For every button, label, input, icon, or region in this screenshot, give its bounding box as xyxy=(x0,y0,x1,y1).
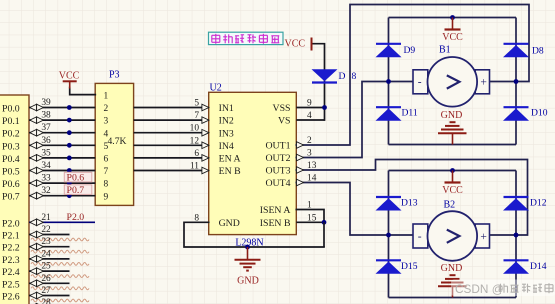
wire P2.4 stub xyxy=(29,270,70,272)
wire B1 right node to motor + xyxy=(490,81,517,83)
svg-text:D15: D15 xyxy=(401,261,418,272)
IO arrow P0.3 xyxy=(30,142,37,149)
input arrow U2 pin6 xyxy=(202,155,209,162)
svg-text:23: 23 xyxy=(41,237,51,247)
svg-text:1: 1 xyxy=(104,92,109,102)
svg-text:36: 36 xyxy=(41,136,51,146)
svg-text:2: 2 xyxy=(307,136,312,146)
no-ERC squiggle under P2.1 xyxy=(31,238,89,241)
diode D13 xyxy=(376,196,401,198)
B1 left rail wire xyxy=(388,18,390,145)
input arrow U2 pin7 xyxy=(202,117,209,124)
svg-text:P2.5: P2.5 xyxy=(2,279,20,290)
IO arrow P2.0 xyxy=(30,219,37,226)
svg-text:P0.6: P0.6 xyxy=(67,173,85,184)
IO arrow P0.2 xyxy=(30,129,37,136)
wire P3 pin2 to U2 IN1 xyxy=(134,107,209,109)
svg-text:7: 7 xyxy=(104,167,109,177)
input arrow U2 pin11 xyxy=(202,167,209,174)
wire B2 left node to motor - xyxy=(389,234,414,236)
junction dot B2 right node xyxy=(514,233,519,238)
svg-text:GND: GND xyxy=(237,275,259,286)
svg-text:OUT3: OUT3 xyxy=(265,166,290,177)
driver U2 (L298N) body xyxy=(209,92,297,234)
IO arrow P2.1 xyxy=(30,231,37,238)
VCC port (B2 rail) xyxy=(450,168,455,173)
svg-text:VCC: VCC xyxy=(285,39,306,50)
svg-text:15: 15 xyxy=(307,213,317,223)
svg-text:D14: D14 xyxy=(530,261,547,272)
output arrow U2 OUT3 xyxy=(297,167,304,174)
svg-text:D13: D13 xyxy=(401,198,418,209)
net label P0.6 xyxy=(64,172,92,182)
svg-text:D10: D10 xyxy=(531,108,548,119)
net label P0.7 xyxy=(64,185,92,195)
B2 left rail wire xyxy=(388,171,390,298)
svg-text:39: 39 xyxy=(41,98,51,108)
svg-text:9: 9 xyxy=(307,99,312,109)
IO arrow P0.6 xyxy=(30,180,37,187)
wire U2 ISEN A pin1 xyxy=(296,210,324,223)
wire U2 VSS pin9 xyxy=(296,107,324,109)
MCU U? (left, clipped) body xyxy=(0,95,29,304)
output arrow U2 OUT4 xyxy=(297,179,304,186)
svg-text:22: 22 xyxy=(41,225,51,235)
svg-text:P2.4: P2.4 xyxy=(2,267,20,278)
B2 right rail wire xyxy=(515,171,517,298)
wire P3 pin7 to U2 EN B xyxy=(134,170,209,172)
wire P2.6 stub xyxy=(29,295,70,297)
svg-text:4: 4 xyxy=(307,111,312,121)
title box 电机驱动电路 (motor drive circuit) xyxy=(209,32,284,44)
svg-text:9: 9 xyxy=(104,192,109,202)
motor B2 xyxy=(413,224,428,248)
B1 bridge frame top VCC rail xyxy=(389,17,517,19)
diode D14 xyxy=(504,259,529,261)
svg-text:ISEN A: ISEN A xyxy=(260,205,291,216)
IO arrow P2.5 xyxy=(30,280,37,287)
svg-text:P0.2: P0.2 xyxy=(2,129,20,140)
svg-text:P0.3: P0.3 xyxy=(2,141,20,152)
wire U2 VS pin4 xyxy=(296,119,324,121)
svg-text:2: 2 xyxy=(104,104,109,114)
B2 bottom GND rail xyxy=(389,297,517,299)
wire U2 ISEN B pin15 xyxy=(296,221,324,223)
svg-text:GND: GND xyxy=(219,218,240,229)
svg-text:33: 33 xyxy=(41,174,51,184)
wire P0.7 to P3 pin9 xyxy=(29,195,95,197)
VCC port (B1 rail) xyxy=(450,15,455,20)
IO arrow P2.6 xyxy=(30,292,37,299)
wire U2 OUT1 pin2 route to B1 + terminal xyxy=(296,5,529,146)
wire P0.1 to P3 pin3 xyxy=(29,119,95,121)
junction dot P0.1 wire xyxy=(67,118,72,123)
wire U2 OUT4 pin14 route to B2 - terminal xyxy=(296,183,388,236)
diode D8 xyxy=(504,43,529,45)
svg-text:GND: GND xyxy=(441,263,463,274)
svg-text:+: + xyxy=(480,231,487,243)
svg-text:38: 38 xyxy=(41,111,51,121)
junction dot P0.4 wire xyxy=(67,156,72,161)
wire B1 left node to motor - xyxy=(389,81,414,83)
svg-text:GND: GND xyxy=(441,110,463,121)
wire D18 branch VCC to VSS/VS xyxy=(312,44,325,120)
svg-text:27: 27 xyxy=(41,286,51,296)
svg-text:1: 1 xyxy=(307,201,312,211)
svg-text:4.7K: 4.7K xyxy=(108,136,127,147)
svg-text:8: 8 xyxy=(194,213,199,223)
wire P3 pin6 to U2 EN A xyxy=(134,157,209,159)
svg-text:12: 12 xyxy=(190,136,200,146)
IO arrow P0.1 xyxy=(30,117,37,124)
wire P3 pin4 to U2 IN3 xyxy=(134,132,209,134)
IO arrow P0.4 xyxy=(30,155,37,162)
wire P0.6 to P3 pin8 xyxy=(29,182,95,184)
IO arrow P2.4 xyxy=(30,268,37,275)
diode D18 (flyback near VSS) xyxy=(312,69,338,81)
svg-text:VCC: VCC xyxy=(442,32,463,43)
junction dot B1 left node xyxy=(386,79,391,84)
wire B2 right node to motor + xyxy=(490,234,517,236)
input arrow U2 pin12 xyxy=(202,142,209,149)
wire P3 pin5 to U2 IN4 xyxy=(134,144,209,146)
svg-text:B1: B1 xyxy=(439,45,451,56)
wire P3 pin3 to U2 IN2 xyxy=(134,119,209,121)
svg-text:OUT2: OUT2 xyxy=(265,153,290,164)
svg-text:25: 25 xyxy=(41,262,51,272)
svg-text:-: - xyxy=(418,231,422,243)
wire P0.2 to P3 pin4 xyxy=(29,132,95,134)
svg-text:L298N: L298N xyxy=(235,237,263,248)
svg-text:EN B: EN B xyxy=(219,166,242,177)
svg-text:35: 35 xyxy=(41,148,51,158)
ground (U2 GND rail) xyxy=(247,247,249,260)
no-ERC squiggle under P2.3 xyxy=(31,263,89,266)
svg-text:26: 26 xyxy=(41,274,51,284)
resistor-network connector P3 body xyxy=(95,83,133,205)
svg-text:VCC: VCC xyxy=(442,185,463,196)
svg-text:8: 8 xyxy=(104,180,109,190)
svg-text:VSS: VSS xyxy=(273,103,291,114)
junction dot ground rail xyxy=(245,245,250,250)
no-ERC squiggle under P2.4 xyxy=(31,275,89,278)
junction dot P0.6 wire xyxy=(67,181,72,186)
svg-text:+: + xyxy=(480,77,487,89)
input arrow U2 pin5 xyxy=(202,104,209,111)
wire P0.5 to P3 pin7 xyxy=(29,170,95,172)
svg-text:32: 32 xyxy=(41,186,51,196)
wire P2.2 stub xyxy=(29,246,70,248)
svg-text:D11: D11 xyxy=(402,108,418,119)
svg-text:IN3: IN3 xyxy=(219,128,234,139)
wire U2 GND pin8 to ground rail xyxy=(184,222,324,247)
svg-text:28: 28 xyxy=(41,298,51,304)
svg-text:VCC: VCC xyxy=(59,70,80,81)
svg-text:D: D xyxy=(339,71,346,82)
B1 bottom GND rail xyxy=(389,144,517,146)
svg-text:P2.0: P2.0 xyxy=(67,212,85,223)
junction dot P0.7 wire xyxy=(67,193,72,198)
svg-text:IN4: IN4 xyxy=(219,141,234,152)
diode D9 xyxy=(376,43,401,45)
no-ERC squiggle under P2.2 xyxy=(31,250,89,253)
junction dot P0.5 wire xyxy=(67,168,72,173)
svg-text:IN2: IN2 xyxy=(219,116,234,127)
junction dot P0.0 wire xyxy=(67,105,72,110)
svg-text:P3: P3 xyxy=(109,70,120,81)
no-ERC squiggle under P2.6 xyxy=(31,299,89,302)
diode D12 xyxy=(504,196,529,198)
svg-text:U2: U2 xyxy=(210,82,222,93)
svg-text:24: 24 xyxy=(41,249,51,259)
junction dot P0.2 wire xyxy=(67,130,72,135)
no-ERC squiggle under P2.5 xyxy=(31,287,89,290)
junction dot B1 right node xyxy=(514,79,519,84)
input arrow U2 pin10 xyxy=(202,129,209,136)
watermark CSDN @... xyxy=(451,280,555,297)
IO arrow P0.0 xyxy=(30,104,37,111)
svg-text:ISEN B: ISEN B xyxy=(260,218,291,229)
svg-text:5: 5 xyxy=(194,99,199,109)
svg-text:OUT1: OUT1 xyxy=(265,141,290,152)
svg-text:37: 37 xyxy=(41,123,51,133)
wire P2.3 stub xyxy=(29,258,70,260)
wire U2 OUT2 pin3 route to B1 - terminal xyxy=(296,82,388,158)
wire P2.0 net stub xyxy=(29,221,95,223)
wire ISEN sense down to ground rail xyxy=(323,222,325,247)
diode D10 xyxy=(504,106,529,108)
svg-text:3: 3 xyxy=(307,149,312,159)
svg-text:D12: D12 xyxy=(530,198,547,209)
diode D11 xyxy=(376,106,401,108)
junction dot B2 left node xyxy=(386,233,391,238)
svg-text:3: 3 xyxy=(104,117,109,127)
svg-text:P0.0: P0.0 xyxy=(2,104,20,115)
svg-text:OUT4: OUT4 xyxy=(265,178,290,189)
svg-text:IN1: IN1 xyxy=(219,103,234,114)
wire P0.0 to P3 pin2 xyxy=(29,107,95,109)
svg-text:11: 11 xyxy=(190,162,199,172)
B2 top VCC rail xyxy=(389,170,517,172)
wire U2 OUT3 pin13 route to B2 + terminal xyxy=(296,160,527,236)
svg-text:P2.0: P2.0 xyxy=(2,218,20,229)
junction dot ISEN B node xyxy=(322,220,327,225)
svg-text:P0.1: P0.1 xyxy=(2,116,20,127)
svg-text:P2.2: P2.2 xyxy=(2,243,20,254)
IO arrow P0.5 xyxy=(30,167,37,174)
output arrow U2 OUT1 xyxy=(297,142,304,149)
svg-text:EN A: EN A xyxy=(219,154,241,165)
svg-text:-: - xyxy=(418,77,422,89)
diode D15 xyxy=(376,259,401,261)
junction dot P0.3 wire xyxy=(67,143,72,148)
svg-text:VS: VS xyxy=(278,116,291,127)
IO arrow P0.7 xyxy=(30,192,37,199)
svg-text:6: 6 xyxy=(104,155,109,165)
svg-text:13: 13 xyxy=(307,161,317,171)
motor B1 xyxy=(413,70,428,94)
svg-text:8: 8 xyxy=(352,71,357,82)
svg-text:P0.4: P0.4 xyxy=(2,154,20,165)
IO arrow P2.3 xyxy=(30,256,37,263)
svg-text:P0.7: P0.7 xyxy=(2,192,20,203)
svg-text:P2.6: P2.6 xyxy=(2,292,20,303)
svg-text:P0.6: P0.6 xyxy=(2,179,20,190)
svg-text:P0.7: P0.7 xyxy=(67,185,85,196)
svg-text:D9: D9 xyxy=(404,45,416,56)
svg-text:14: 14 xyxy=(307,174,317,184)
B1 right rail wire xyxy=(515,18,517,145)
IO arrow P2.2 xyxy=(30,243,37,250)
wire P2.5 stub xyxy=(29,282,70,284)
svg-text:P2.1: P2.1 xyxy=(2,231,20,242)
svg-text:B2: B2 xyxy=(444,200,456,211)
svg-text:CSDN @: CSDN @ xyxy=(455,282,504,296)
output arrow U2 OUT2 xyxy=(297,154,304,161)
wire P0.3 to P3 pin5 xyxy=(29,144,95,146)
svg-text:21: 21 xyxy=(41,213,51,223)
svg-text:6: 6 xyxy=(194,149,199,159)
wire P2.1 stub xyxy=(29,234,70,236)
svg-text:P0.5: P0.5 xyxy=(2,167,20,178)
svg-text:7: 7 xyxy=(194,111,199,121)
svg-text:P2.3: P2.3 xyxy=(2,255,20,266)
svg-text:10: 10 xyxy=(190,124,200,134)
svg-text:34: 34 xyxy=(41,161,51,171)
wire P0.4 to P3 pin6 xyxy=(29,157,95,159)
svg-text:D8: D8 xyxy=(532,46,544,57)
wire VCC to P3 pin1 xyxy=(70,88,96,95)
junction dot VSS node xyxy=(322,105,327,110)
